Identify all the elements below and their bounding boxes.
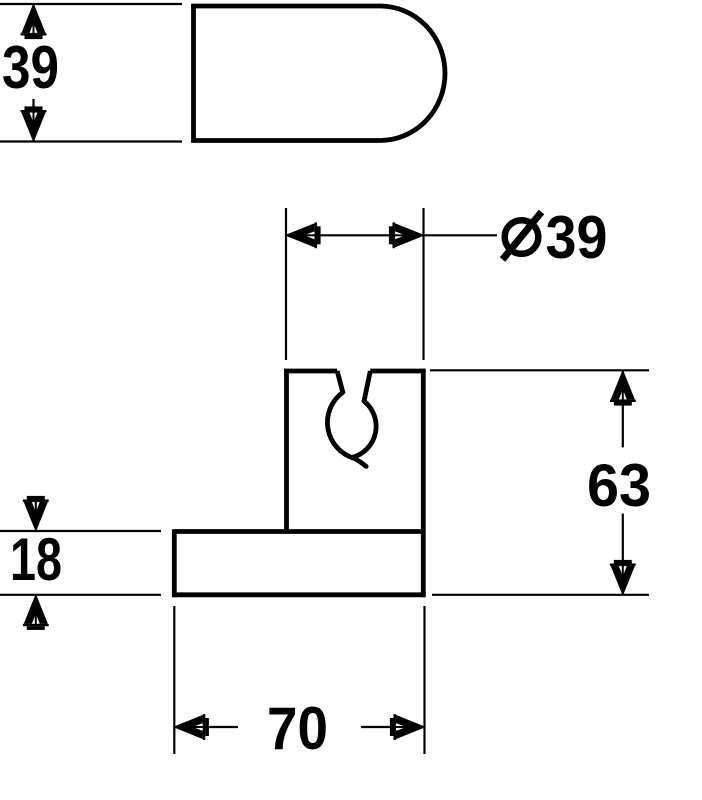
dim D39: diameter symbol slash [503,212,542,260]
dim 39: down arrow [21,106,47,142]
dim 63: up arrow [610,370,636,406]
dim 18: top extension line [0,530,161,532]
dim 63: bottom extension line [432,594,649,596]
svg-text:18: 18 [10,526,62,593]
svg-text:39: 39 [546,204,608,271]
dim 70: right extension line [423,606,425,754]
dim D39: leader line to text [424,234,498,236]
dim 39: bottom extension line [0,140,182,142]
front view: body top edge left segment [284,369,337,374]
keyhole slot: right arc [352,401,376,457]
dim 39: dimension line upper segment [32,5,34,40]
front view: base top edge [174,529,423,534]
front view: body top edge right segment [370,369,425,374]
dim 63: dimension line lower segment [622,514,624,594]
dim 18: bottom extension line [0,594,161,596]
dim 39: top extension line [0,3,182,5]
svg-text:39: 39 [2,34,59,101]
svg-text:70: 70 [267,695,328,762]
svg-text:63: 63 [587,452,651,519]
front view: base bottom edge [172,592,426,597]
dim 70: dimension line right segment [361,726,425,728]
dim D39: dimension line [286,234,424,236]
top view outline [194,6,446,141]
front view: body+base right edge [421,369,426,597]
dim 70: left arrow [173,714,209,740]
dim 18: up arrow below bottom line [23,594,49,630]
dim 63: dimension line upper segment [622,371,624,447]
dim 18: down arrow above top line [23,496,49,532]
dim 70: left extension line [173,606,175,754]
dim 63: top extension line [430,369,649,371]
dim D39: right extension line [422,208,424,360]
dim D39: left arrow [285,222,321,248]
front view: body left edge [284,369,289,532]
dim 63: down arrow [610,560,636,596]
dim D39: right arrow [389,222,425,248]
keyhole slot: right slot line [364,371,370,401]
dim 39: dimension line lower segment [32,99,34,141]
keyhole slot: left arc [327,392,366,466]
keyhole slot: left slot line [337,371,343,393]
dim 70: right arrow [390,714,426,740]
dim D39: left extension line [285,208,287,360]
dim D39: diameter symbol circle [505,220,539,254]
front view: base left edge [172,529,177,597]
dim 39: up arrow [21,3,47,39]
dim 70: dimension line left segment [174,726,238,728]
